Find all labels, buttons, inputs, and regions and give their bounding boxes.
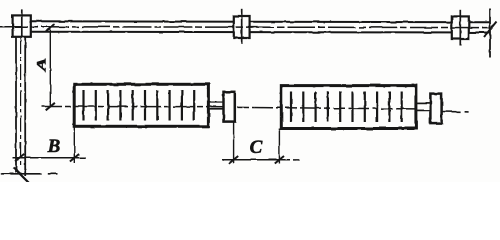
node: middle coupling vertical axis [241,9,243,44]
dimension B line [13,157,87,159]
dimension A tick bottom [46,103,55,111]
radiator 2 section ticks [291,92,402,123]
wire: supply pipe bottom line [30,31,490,34]
wire: riser centerline (dash-dot) [20,38,22,168]
wire: riser right line [24,37,26,177]
node: right coupling vertical axis [459,10,461,46]
node: left tee vertical axis [21,9,23,37]
wire: radiator 2 connection stub top [416,102,430,104]
node: pipe end boundary line right [489,9,491,58]
wire: radiator 1 centerline (dash-dot) [41,106,237,108]
radiator 1 section ticks [84,90,195,121]
coupling box right [452,16,469,39]
svg-text:B: B [47,136,61,157]
coupling box left (tee on riser) [13,15,31,36]
dimension A extension line [49,27,51,107]
dimension B extension line (radiator 1 left edge) [73,127,75,164]
label A [34,58,48,72]
node: riser break slash [14,168,30,184]
wire: supply pipe top line [30,20,490,23]
svg-text:C: C [250,137,263,158]
valve 2 [430,94,441,124]
wire: riser left line [15,37,17,173]
dimension B tick right [70,154,79,162]
dimension C extension line right (radiator 2 left edge) [278,129,280,164]
node: break tick at right pipe end [484,22,497,38]
valve 1 [224,92,235,122]
wire: radiator 1 connection stub bottom [209,108,224,110]
radiator 1 body [74,84,208,126]
wire: radiator 2 connection stub bottom [416,109,430,111]
dimension C tick right [275,156,284,164]
wire: floor reference dash line bottom left [1,173,58,175]
wire: radiator 2 centerline right extension (dash-dot) [442,111,469,113]
wire: C dimension overshoot dash [293,159,300,161]
dimension A tick top [46,24,55,32]
wire: radiator 2 centerline (dash-dot) [237,107,416,109]
dimension B tick left [15,154,24,162]
wire: pipe centerline (dash-dot) [0,26,492,29]
radiator 2 body [281,86,416,129]
dimension C extension line left (valve 1) [233,122,235,164]
coupling box middle [234,16,250,38]
dimension C tick left [229,156,238,164]
dimension C line [222,159,290,161]
wire: radiator 1 connection stub top [209,101,224,103]
svg-text:A: A [34,58,48,72]
